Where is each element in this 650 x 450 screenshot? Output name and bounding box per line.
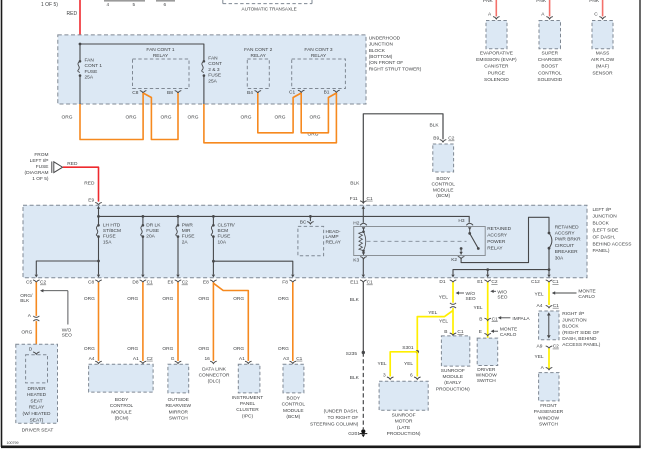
svg-text:FUSE: FUSE (208, 73, 221, 79)
pin C8 of fan cont 1 relay (132, 90, 146, 96)
pin G of outside rearview mirror switch (171, 356, 182, 364)
label SUPER CHARGER BOOST CONTROL SOLENOID (537, 51, 562, 83)
pointer W/O SEO to C5 wire (40, 289, 68, 325)
junction node on feed (79, 43, 82, 46)
wire ORG connector A to driver heated seat relay (35, 321, 37, 352)
junction dot fuse4 split to F8 (212, 260, 215, 263)
label RETAINED ACCSRY POWER RELAY (487, 226, 511, 252)
svg-text:YEL: YEL (428, 310, 437, 316)
svg-text:RIGHT STRUT TOWER): RIGHT STRUT TOWER) (369, 66, 422, 72)
pass-through arrow inside right I/P junction block (547, 312, 551, 338)
svg-text:(DIAGRAM: (DIAGRAM (25, 170, 49, 176)
svg-text:(LEFT SIDE: (LEFT SIDE (593, 228, 619, 234)
svg-text:16: 16 (205, 356, 211, 362)
svg-text:C1: C1 (147, 280, 153, 286)
svg-text:SUNROOF: SUNROOF (392, 412, 416, 418)
svg-text:PNK: PNK (483, 0, 494, 4)
pin A4 C1 of right I/P junction block (537, 303, 560, 309)
svg-text:CLUSTER: CLUSTER (236, 407, 259, 413)
svg-text:FUSE: FUSE (218, 234, 231, 240)
relay FAN CONT 3 RELAY box (292, 59, 346, 89)
fuse FAN CONT 2and3 FUSE 25A (202, 60, 206, 77)
svg-text:RELAY: RELAY (487, 246, 503, 252)
right I/P junction block box (539, 311, 559, 340)
svg-text:F8: F8 (282, 280, 288, 286)
pin B4 of fan cont 2 relay (247, 90, 261, 96)
arrow into edge at D1 (451, 275, 454, 278)
svg-text:SWITCH: SWITCH (477, 378, 496, 384)
wire ORG E8 to DLC pin 16 (212, 282, 214, 361)
svg-text:YEL: YEL (378, 361, 387, 367)
svg-text:B1: B1 (324, 89, 330, 95)
pin C of MAF sensor (594, 12, 606, 19)
svg-text:(DLC): (DLC) (208, 378, 221, 384)
arrow into edge at E6 (176, 275, 179, 278)
label FAN CONT 1 RELAY (146, 47, 174, 59)
pin D of driver heated seat relay (29, 347, 40, 355)
arrow out of relay at K2 (459, 249, 462, 255)
arrow into block at F11 (362, 206, 365, 209)
svg-text:ORG: ORG (21, 329, 32, 335)
svg-text:JUNCTION: JUNCTION (562, 317, 587, 323)
pin E11 C1 on bottom of left I/P junction block (350, 280, 373, 286)
pin F11 C1 on top of left I/P junction block (350, 196, 373, 203)
svg-text:DATA LINK: DATA LINK (202, 367, 227, 373)
svg-text:ORG: ORG (233, 296, 244, 302)
svg-text:(RIGHT SIDE OF: (RIGHT SIDE OF (562, 330, 599, 336)
svg-text:SENSOR: SENSOR (592, 70, 613, 76)
wire YEL D1 to sunroof branches (452, 282, 454, 302)
arrow into edge at C12 (547, 275, 550, 278)
pin C12 C1 on bottom of left I/P junction block (531, 279, 559, 285)
switch contacts of retained accessory power relay (460, 232, 480, 250)
pin 16 of data link connector (205, 356, 217, 364)
svg-text:ORG: ORG (188, 115, 199, 121)
junction dot fuse1 split to C5 (97, 260, 100, 263)
svg-text:A4: A4 (89, 356, 95, 362)
label SUNROOF MODULE (EARLY PRODUCTION) (436, 368, 470, 393)
svg-text:OUTSIDE: OUTSIDE (168, 397, 189, 403)
wire K2 to circuit breaker (461, 217, 549, 262)
arrow into relay at H2 (362, 227, 365, 231)
label SUNROOF MOTOR (LATE PRODUCTION) (387, 412, 421, 437)
svg-text:ORG: ORG (127, 346, 138, 352)
svg-text:MONTE: MONTE (500, 327, 517, 333)
wire YEL branch to splice S301 (417, 311, 453, 352)
label W/O SEO (466, 291, 476, 302)
svg-text:AUTOMATIC TRANSAXLE: AUTOMATIC TRANSAXLE (242, 6, 297, 11)
inline connector on sunroof feed (450, 303, 456, 308)
wire branch to pin C5 (36, 261, 98, 275)
svg-text:SEAT): SEAT) (30, 417, 44, 423)
wire YEL right block to front passenger window switch (548, 348, 550, 369)
svg-text:PNK: PNK (589, 0, 600, 4)
svg-text:(UNDER DASH,: (UNDER DASH, (324, 409, 359, 415)
svg-text:2A: 2A (182, 239, 189, 245)
pin H2 of retained accessory power relay (353, 221, 367, 227)
svg-text:2 & 3: 2 & 3 (208, 67, 220, 73)
svg-text:E8: E8 (203, 280, 209, 286)
body control module (bcm) box top right (433, 144, 454, 172)
svg-text:MODULE: MODULE (283, 408, 304, 414)
label (UNDER DASH, TO RIGHT OF STEERING COLUMN) (310, 409, 359, 428)
svg-text:PWR BRKR: PWR BRKR (555, 237, 581, 243)
splice S301 (402, 345, 419, 354)
label FAN CONT 3 RELAY (304, 47, 332, 59)
label INSTRUMENT PANEL CLUSTER (IPC) (232, 395, 264, 420)
label UNDERHOOD JUNCTION BLOCK (BOTTOM) (ON FRONT OF RIGHT STRUT TOWER) (369, 36, 422, 73)
svg-text:C1: C1 (457, 329, 463, 335)
svg-text:CONTROL: CONTROL (431, 182, 455, 188)
fuse CLSTR/BCM FUSE 10A (211, 216, 215, 274)
svg-text:ORG: ORG (278, 296, 289, 302)
automatic transaxle dashed box (cut off at top) (223, 0, 312, 4)
fuse FAN CONT 1 FUSE 25A (78, 60, 82, 77)
svg-text:WINDOW: WINDOW (476, 373, 498, 379)
svg-text:RELAY: RELAY (251, 53, 267, 59)
arrow into edge at D8 (141, 275, 144, 278)
pin A3 C1 of body control module 2 (283, 356, 303, 364)
wire RED from diagram 1 of 5 into underhood junction block (79, 0, 81, 44)
svg-text:RELAY: RELAY (311, 53, 327, 59)
pin E of driver window switch (Monte Carlo) (479, 329, 491, 336)
pin B C1 of sunroof module (444, 329, 464, 335)
svg-text:MIR: MIR (182, 228, 191, 234)
pointer MONTE CARLO at C12 wire (552, 291, 577, 294)
wire K3 to E11 (362, 259, 364, 275)
wire PNK to MAF sensor (602, 0, 604, 16)
svg-text:JUNCTION: JUNCTION (593, 214, 618, 220)
svg-text:CONNECTOR: CONNECTOR (199, 372, 230, 378)
svg-text:REARVIEW: REARVIEW (166, 403, 192, 409)
label RIGHT I/P JUNCTION BLOCK (RIGHT SIDE OF DASH, BEHIND ACCESS PANEL) (562, 311, 600, 348)
svg-text:DASH, BEHIND: DASH, BEHIND (562, 336, 597, 342)
svg-text:4: 4 (107, 2, 110, 7)
label OUTSIDE REARVIEW MIRROR SWITCH (166, 397, 192, 422)
svg-text:SWITCH: SWITCH (539, 422, 558, 428)
label CLSTR/BCM FUSE 10A (218, 222, 236, 245)
svg-text:ORG: ORG (278, 346, 289, 352)
pointer W/O SEO at E1 wire (490, 290, 496, 293)
svg-text:YEL: YEL (535, 354, 544, 360)
svg-text:ORG: ORG (162, 296, 173, 302)
svg-text:E1: E1 (477, 279, 483, 285)
svg-text:A9: A9 (537, 344, 543, 350)
svg-text:A1: A1 (133, 356, 139, 362)
svg-text:LH HTD: LH HTD (103, 222, 121, 228)
svg-text:C1: C1 (492, 316, 498, 322)
instrument panel cluster box (238, 364, 260, 393)
svg-text:HEATED: HEATED (27, 392, 47, 398)
svg-text:FUSE: FUSE (36, 164, 49, 170)
svg-text:MODULE: MODULE (111, 409, 132, 415)
splice S235 (346, 351, 365, 357)
svg-text:K3: K3 (353, 257, 359, 263)
svg-text:F11: F11 (350, 196, 358, 202)
svg-text:D8: D8 (132, 280, 138, 286)
svg-text:B8: B8 (167, 90, 173, 96)
arrow out of relay at K3 (362, 251, 365, 255)
pin E8 on bottom of left I/P junction block (203, 280, 217, 286)
circuit breaker RETAINED ACCSRY PWR BRKR 30A (548, 232, 552, 250)
svg-text:ORG: ORG (241, 115, 252, 121)
svg-text:ACCSRY: ACCSRY (555, 231, 576, 237)
svg-text:E9: E9 (88, 197, 94, 203)
label FAN CONT 2 RELAY (244, 47, 272, 59)
svg-text:MODULE: MODULE (433, 187, 454, 193)
pin B C1 of driver window switch (Impala) (479, 316, 498, 322)
relay FAN CONT 2 RELAY box (247, 59, 269, 89)
svg-text:RED: RED (67, 11, 78, 17)
svg-text:POWER: POWER (487, 239, 506, 245)
svg-text:INSTRUMENT: INSTRUMENT (232, 395, 264, 401)
svg-text:E11: E11 (350, 280, 359, 286)
pin C1 of fan cont 3 relay (289, 89, 305, 95)
wire YEL S301 to sunroof motor pin 6 (416, 352, 418, 377)
svg-text:G201: G201 (348, 431, 360, 437)
underhood junction block box (58, 35, 366, 104)
svg-text:OF DASH,: OF DASH, (593, 234, 616, 240)
svg-text:E6: E6 (168, 280, 174, 286)
svg-text:A4: A4 (537, 303, 543, 309)
svg-text:C1: C1 (553, 303, 559, 309)
svg-text:RED: RED (67, 161, 78, 167)
ground G201 (348, 429, 367, 437)
svg-text:RELAY: RELAY (29, 405, 45, 411)
pin 3 of sunroof motor (383, 373, 394, 380)
coil of retained accessory power relay (359, 230, 366, 252)
svg-text:CONTROL: CONTROL (282, 402, 306, 408)
arrow into edge at E11 (362, 275, 365, 278)
svg-text:PRODUCTION): PRODUCTION) (436, 386, 470, 392)
svg-text:C: C (594, 12, 598, 18)
svg-text:(EARLY: (EARLY (444, 380, 462, 386)
svg-text:BCM: BCM (218, 228, 229, 234)
svg-text:C12: C12 (531, 279, 540, 285)
svg-text:ORG: ORG (62, 115, 73, 121)
body control module (bcm) box bottom middle (283, 364, 304, 393)
svg-text:YEL: YEL (404, 361, 413, 367)
arrow into block at E9 (97, 206, 100, 209)
pin C5 C2 on bottom of left I/P junction block (26, 280, 46, 286)
pin A of EVAP solenoid (488, 12, 500, 19)
svg-text:LEFT I/P: LEFT I/P (30, 158, 49, 164)
svg-text:6: 6 (164, 2, 167, 7)
svg-text:ORG: ORG (198, 296, 209, 302)
svg-text:C2: C2 (182, 280, 188, 286)
svg-text:BLK: BLK (350, 181, 360, 187)
svg-text:C2: C2 (40, 280, 46, 286)
relay DRIVER HEATED SEAT RELAY box (26, 355, 48, 383)
svg-text:10A: 10A (218, 239, 227, 245)
wire PNK to supercharger boost solenoid (549, 0, 551, 16)
pin E6 C2 on bottom of left I/P junction block (168, 280, 189, 286)
pin C8 on bottom of left I/P junction block (88, 280, 102, 286)
svg-text:100799: 100799 (7, 441, 19, 445)
svg-text:RELAY: RELAY (153, 53, 169, 59)
outside rearview mirror switch box (168, 364, 189, 393)
svg-text:C5: C5 (26, 280, 32, 286)
pin A of front passenger window switch (541, 365, 553, 371)
junction dot fuse3 tap (177, 215, 180, 218)
svg-text:LEFT I/P: LEFT I/P (593, 207, 612, 213)
svg-text:ORG: ORG (161, 115, 172, 121)
svg-text:C1: C1 (296, 356, 302, 362)
svg-text:ORG: ORG (84, 346, 95, 352)
svg-text:(BOTTOM): (BOTTOM) (369, 54, 393, 60)
pin BC of headlamp relay (300, 216, 314, 225)
svg-text:DRIVER: DRIVER (477, 367, 496, 373)
wire ORG relay3 C1 to relay3 B1 branch (301, 93, 336, 133)
svg-text:S235: S235 (346, 351, 358, 357)
arrow into edge at C8 (97, 275, 100, 278)
front passenger window switch box (539, 373, 559, 401)
arrow into relay at H3 (468, 227, 471, 233)
svg-text:SEO: SEO (497, 294, 507, 300)
svg-text:ORG: ORG (162, 346, 173, 352)
svg-text:SUPER: SUPER (542, 51, 559, 57)
svg-text:ORG: ORG (198, 346, 209, 352)
svg-text:TO RIGHT OF: TO RIGHT OF (328, 415, 359, 421)
svg-text:BLOCK: BLOCK (593, 221, 610, 227)
svg-text:ORG: ORG (84, 296, 95, 302)
pin K2 of retained accessory power relay (451, 256, 464, 263)
svg-text:E: E (479, 329, 482, 335)
arrow into edge at E1 (486, 275, 489, 278)
svg-text:C8: C8 (88, 280, 94, 286)
wire YEL connector to sunroof module pin B (452, 308, 454, 335)
svg-text:ST/BCM: ST/BCM (103, 228, 121, 234)
svg-text:A1: A1 (239, 356, 245, 362)
svg-text:CONTROL: CONTROL (110, 403, 134, 409)
evaporative emission canister purge solenoid box (486, 21, 507, 49)
injector text fragments cut at top (104, 0, 175, 2)
svg-text:(BCM): (BCM) (115, 416, 129, 422)
svg-text:30A: 30A (555, 255, 564, 261)
fuse PWR MIR FUSE 2A (176, 216, 180, 274)
svg-text:B9: B9 (433, 136, 439, 142)
svg-text:UNDERHOOD: UNDERHOOD (369, 36, 401, 42)
svg-text:FUSE: FUSE (146, 228, 159, 234)
svg-text:PURGE: PURGE (488, 70, 505, 76)
svg-text:C2: C2 (448, 136, 454, 142)
label MASS AIR FLOW (MAF) SENSOR (591, 51, 615, 77)
svg-text:20A: 20A (146, 234, 155, 240)
wire ORG E6 to mirror switch pin G (177, 282, 179, 361)
svg-text:MASS: MASS (596, 51, 610, 57)
svg-text:ORG: ORG (127, 296, 138, 302)
svg-text:MONTE: MONTE (578, 289, 595, 295)
super charger boost control solenoid box (539, 21, 561, 49)
svg-text:CIRCUIT: CIRCUIT (555, 243, 575, 249)
svg-text:BC: BC (300, 219, 307, 225)
svg-text:FAN: FAN (85, 57, 95, 63)
svg-text:(BCM): (BCM) (286, 414, 300, 420)
svg-text:SEO: SEO (62, 332, 72, 338)
svg-text:BLK: BLK (350, 297, 360, 303)
pin E1 C2 on bottom of left I/P junction block (477, 279, 498, 285)
label W/O SEO (62, 327, 72, 338)
wire fan cont 1 fuse output (79, 76, 81, 104)
svg-text:(BCM): (BCM) (436, 193, 450, 199)
relay HEADLAMP RELAY box (298, 226, 324, 255)
wire YEL C12 to right I/P junction block (548, 282, 550, 305)
svg-text:25A: 25A (85, 75, 94, 81)
svg-text:C1: C1 (367, 280, 373, 286)
svg-text:RETAINED: RETAINED (487, 226, 511, 232)
svg-text:BLOCK: BLOCK (369, 48, 386, 54)
svg-text:25A: 25A (208, 79, 217, 85)
page frame right border (639, 0, 641, 447)
svg-text:MOTOR: MOTOR (395, 419, 413, 425)
wire rail to E1 (487, 270, 489, 275)
svg-text:MIRROR: MIRROR (169, 409, 189, 415)
svg-text:(LATE: (LATE (397, 425, 410, 431)
pin F8 on bottom of left I/P junction block (282, 280, 296, 286)
pin B1 of fan cont 3 relay (324, 89, 340, 95)
svg-text:A3: A3 (283, 356, 289, 362)
svg-text:PANEL: PANEL (240, 401, 256, 407)
svg-text:W/O: W/O (497, 289, 507, 295)
svg-text:C1: C1 (367, 196, 373, 202)
svg-text:B: B (444, 329, 447, 335)
svg-text:ORG: ORG (275, 115, 286, 121)
svg-text:YEL: YEL (439, 294, 448, 300)
svg-text:CARLO: CARLO (578, 294, 595, 300)
relay FAN CONT 1 RELAY box (133, 59, 190, 89)
label BODY CONTROL MODULE (BCM) (282, 395, 306, 420)
arrow into edge at C5 (35, 275, 38, 278)
svg-text:ACCESS PANEL): ACCESS PANEL) (562, 342, 600, 348)
label DATA LINK CONNECTOR (DLC) (199, 367, 230, 385)
svg-text:RIGHT I/P: RIGHT I/P (562, 311, 584, 317)
svg-text:CHARGER: CHARGER (538, 57, 563, 63)
mass air flow sensor box (592, 21, 613, 49)
wire ORG E8 branch to instrument panel cluster (213, 283, 248, 361)
svg-text:BREAKER: BREAKER (555, 249, 578, 255)
svg-text:B4: B4 (247, 90, 253, 96)
svg-text:SWITCH: SWITCH (169, 416, 188, 422)
label W/O SEO (497, 289, 507, 300)
svg-text:CLSTR/: CLSTR/ (218, 222, 236, 228)
svg-text:EVAPORATIVE: EVAPORATIVE (480, 51, 513, 57)
wire BLK E11 to splice S235 (362, 282, 364, 352)
svg-text:C8: C8 (132, 90, 138, 96)
label DRIVER HEATED SEAT RELAY (W/ HEATED SEAT) (23, 386, 51, 424)
pin A1 of instrument panel cluster (239, 356, 252, 364)
svg-text:SOLENOID: SOLENOID (537, 77, 562, 83)
label MONTE CARLO (578, 289, 595, 300)
svg-text:BLOCK: BLOCK (562, 324, 579, 330)
fuse LH HTD ST/BCM FUSE 15A (96, 216, 100, 274)
label MONTE CARLO (500, 327, 517, 338)
svg-text:6: 6 (410, 373, 413, 379)
off-page connector arrow from left I/P fuse (52, 162, 63, 173)
svg-text:G: G (171, 356, 175, 362)
label FAN CONT 2 and 3 FUSE 25A (208, 55, 222, 84)
pin 6 of sunroof motor (410, 373, 421, 380)
relay RETAINED ACCSRY POWER RELAY box (354, 227, 486, 256)
svg-text:HEAD-: HEAD- (326, 229, 341, 235)
junction dot fuse2 tap (142, 215, 145, 218)
svg-text:FUSE: FUSE (182, 234, 195, 240)
svg-text:(IPC): (IPC) (242, 413, 254, 419)
sunroof motor box (379, 381, 428, 410)
wire circuit breaker output rail (453, 248, 549, 274)
svg-text:W/O: W/O (466, 291, 476, 297)
svg-text:PWR: PWR (182, 222, 194, 228)
label FAN CONT 1 FUSE 25A (85, 57, 103, 80)
